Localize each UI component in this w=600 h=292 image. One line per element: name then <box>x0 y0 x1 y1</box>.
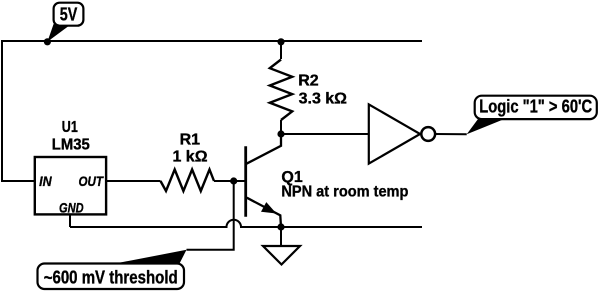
wire: +5V top rail <box>1 40 422 42</box>
resistor R2 <box>270 41 292 134</box>
svg-text:R1: R1 <box>180 131 201 148</box>
svg-text:3.3 kΩ: 3.3 kΩ <box>299 91 348 108</box>
sensor U1 LM35 body <box>35 157 106 214</box>
wire: base node stub down to threshold callout <box>187 181 234 250</box>
svg-text:LM35: LM35 <box>52 136 90 153</box>
junction dot: R2 top on rail <box>277 38 284 45</box>
svg-text:GND: GND <box>59 200 84 216</box>
power label 5V callout <box>47 3 83 42</box>
svg-text:NPN at room temp: NPN at room temp <box>281 184 408 201</box>
svg-text:R2: R2 <box>298 73 319 90</box>
junction dot: 5V tap on rail <box>44 38 51 45</box>
wire: inverter output <box>435 133 467 135</box>
wire: R1 to Q1 base <box>214 180 245 182</box>
svg-text:U1: U1 <box>62 119 78 136</box>
ground <box>263 246 300 265</box>
svg-text:5V: 5V <box>60 4 78 24</box>
wire: bottom ground rail with hop over base stub <box>70 220 422 227</box>
resistor R1 <box>161 170 215 192</box>
wire: collector node to inverter input <box>281 133 369 135</box>
annotation: ~600 mV threshold callout <box>38 250 187 289</box>
wire: LM35 OUT to R1 <box>106 180 160 182</box>
wire: left vertical from top rail to LM35 IN pin <box>2 41 35 181</box>
annotation: Logic "1" > 60'C callout <box>467 96 597 135</box>
junction dot: base node <box>230 177 237 184</box>
svg-text:1 kΩ: 1 kΩ <box>172 149 207 166</box>
junction dot: emitter node <box>277 223 284 230</box>
wire: emitter node down to ground <box>280 227 282 246</box>
transistor Q1 <box>246 134 281 227</box>
junction dot: collector node <box>277 130 284 137</box>
svg-text:~600 mV threshold: ~600 mV threshold <box>44 267 178 287</box>
inverter U2 <box>369 104 435 163</box>
svg-text:IN: IN <box>39 173 52 189</box>
wire: LM35 GND pin down <box>69 214 71 227</box>
svg-text:OUT: OUT <box>79 173 105 189</box>
svg-text:Logic "1" > 60'C: Logic "1" > 60'C <box>479 97 592 117</box>
